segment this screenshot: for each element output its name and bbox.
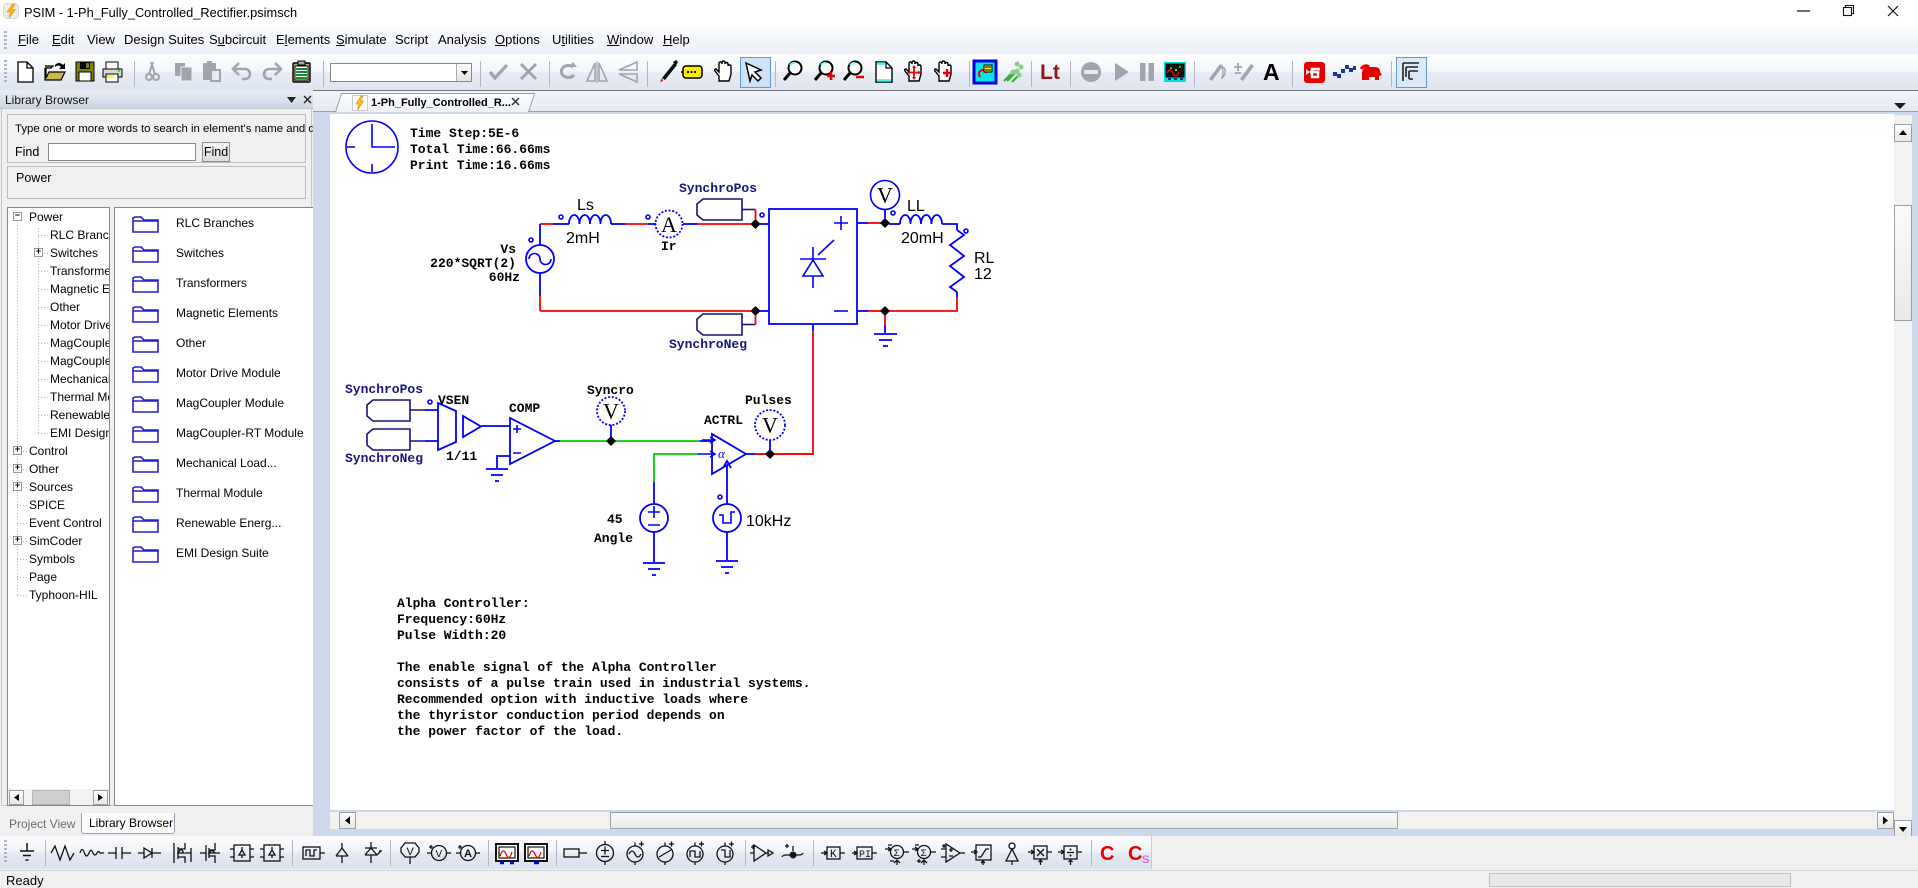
svg-text:V: V [436,849,443,860]
svg-text:the thyristor conduction perio: the thyristor conduction period depends … [397,708,725,723]
svg-text:Angle: Angle [594,531,633,546]
svg-text:V: V [407,846,415,858]
svg-text:ACTRL: ACTRL [704,413,743,428]
svg-text:60Hz: 60Hz [489,270,520,285]
svg-text:LL: LL [907,198,925,215]
svg-text:S: S [1142,854,1149,866]
svg-text:SynchroPos: SynchroPos [679,181,757,196]
svg-text:Time Step:5E-6: Time Step:5E-6 [410,126,519,141]
svg-text:α: α [718,446,726,461]
svg-text:V: V [762,413,778,438]
svg-text:COMP: COMP [509,401,540,416]
svg-text:Alpha Controller:: Alpha Controller: [397,596,530,611]
svg-text:220*SQRT(2): 220*SQRT(2) [430,256,516,271]
svg-text:V: V [877,183,893,208]
svg-text:SynchroNeg: SynchroNeg [669,337,747,352]
svg-text:C: C [1128,843,1142,865]
svg-text:Syncro: Syncro [587,383,634,398]
svg-text:RL: RL [974,250,995,267]
svg-text:K: K [830,849,837,861]
svg-text:2mH: 2mH [566,230,600,247]
svg-text:Frequency:60Hz: Frequency:60Hz [397,612,506,627]
svg-text:the power factor of the load.: the power factor of the load. [397,724,623,739]
svg-text:Σ: Σ [894,849,900,860]
svg-text:20mH: 20mH [901,230,944,247]
svg-text:A: A [464,848,472,860]
svg-text:12: 12 [974,266,992,283]
svg-text:SynchroPos: SynchroPos [345,382,423,397]
svg-text:1/11: 1/11 [446,449,477,464]
svg-text:The enable signal of the Alpha: The enable signal of the Alpha Controlle… [397,660,717,675]
svg-text:Σ: Σ [921,849,927,860]
svg-text:VSEN: VSEN [438,393,469,408]
svg-text:PI: PI [859,850,871,861]
svg-text:A: A [1263,59,1280,85]
svg-text:10kHz: 10kHz [746,513,791,530]
svg-text:C: C [1100,843,1114,865]
svg-text:Recommended option with induct: Recommended option with inductive loads … [397,692,748,707]
svg-text:45: 45 [607,512,623,527]
svg-text:Print Time:16.66ms: Print Time:16.66ms [410,158,551,173]
svg-text:Ls: Ls [577,197,594,214]
svg-text:Pulse Width:20: Pulse Width:20 [397,628,506,643]
svg-text:SynchroNeg: SynchroNeg [345,451,423,466]
svg-text:V: V [603,399,619,424]
svg-text:Ir: Ir [661,239,677,254]
svg-text:consists of a pulse train used: consists of a pulse train used in indust… [397,676,810,691]
svg-text:Vs: Vs [500,242,516,257]
svg-text:Pulses: Pulses [745,393,792,408]
svg-text:Total Time:66.66ms: Total Time:66.66ms [410,142,551,157]
svg-text:Lt: Lt [1040,61,1060,84]
svg-text:A: A [661,212,677,237]
